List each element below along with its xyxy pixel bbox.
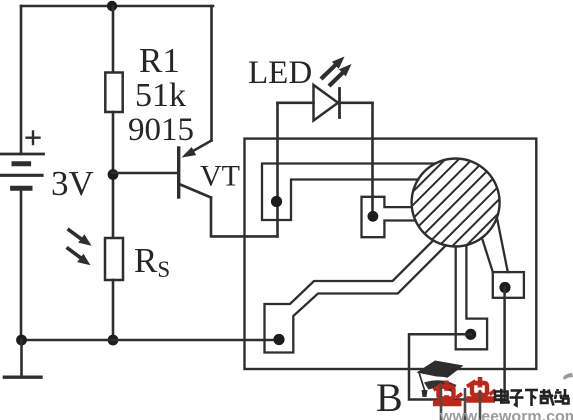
pad 3 dot: [273, 334, 284, 345]
photoresistor Rs: [105, 238, 123, 280]
paper smudge right edge: [563, 373, 573, 380]
piezo disc (hatched): [331, 145, 573, 260]
wire pad5 to pad4 routed below board: [409, 288, 505, 400]
pad 4 trace (bottom-middle): [456, 245, 487, 349]
svg-text:www.eeworm.com: www.eeworm.com: [439, 409, 573, 420]
char zai: [540, 389, 554, 406]
wire top rail to R1: [112, 6, 115, 73]
pad 1 trace (top-left): [262, 164, 435, 221]
wire left vertical to battery: [20, 6, 23, 152]
node battery bottom junction: [16, 335, 27, 346]
svg-text:VT: VT: [200, 160, 240, 193]
watermark dark vertical strokes: [441, 385, 480, 420]
wire Rs bottom to rail: [112, 280, 115, 340]
watermark chongchong character 2 (red bug): [467, 377, 496, 400]
svg-text:51k: 51k: [135, 77, 186, 114]
pad 4 dot: [465, 329, 476, 340]
LED cathode bar: [338, 89, 341, 118]
pad 5 dot: [499, 282, 510, 293]
wire emitter to top rail: [210, 6, 213, 141]
wire LED left horizontal: [278, 102, 314, 105]
wire battery bottom to bottom rail: [20, 191, 23, 341]
LED diode triangle: [314, 85, 339, 121]
wire top rail: [21, 5, 213, 8]
wire ground stub: [20, 340, 23, 376]
light arrow 2 at Rs: [68, 249, 91, 266]
node Rs bottom junction: [108, 335, 119, 346]
ground: [4, 376, 41, 379]
transistor VT 9015 PNP: [179, 141, 212, 198]
wire collector down and right: [211, 198, 278, 237]
wire R1 to base junction to Rs: [112, 112, 115, 238]
resistor R1: [105, 73, 122, 113]
wire bottom rail: [21, 339, 279, 342]
svg-text:9015: 9015: [128, 112, 194, 148]
watermark chongchong character 1 (red bug): [433, 381, 462, 404]
pad 5 trace (right): [482, 218, 524, 298]
watermark text dianzi xiazaizhan (drawn strokes): [495, 389, 569, 406]
pad 2 trace: [362, 197, 416, 237]
LED emission arrow 2: [331, 64, 352, 85]
PCB board outline B: [245, 139, 537, 369]
watermark graduation cap: [417, 361, 464, 398]
LED emission arrow 1: [323, 57, 345, 78]
svg-text:R1: R1: [139, 41, 180, 80]
pad 2 dot: [368, 211, 379, 222]
char zhan: [555, 389, 570, 404]
light arrow 1 at Rs: [69, 230, 92, 246]
battery GB 3V: [0, 154, 44, 188]
battery plus sign: [27, 132, 40, 145]
wire base wire: [113, 172, 177, 175]
wire LED right horizontal: [340, 102, 373, 105]
svg-text:3V: 3V: [51, 164, 94, 203]
char dian: [495, 389, 509, 403]
pad 3 trace (bottom-left): [265, 240, 446, 352]
node top junction: [107, 1, 117, 11]
svg-text:LED: LED: [248, 55, 312, 91]
char zi: [510, 391, 524, 406]
char xia: [525, 390, 538, 406]
wire LED anode vertical: [276, 103, 279, 237]
svg-text:B: B: [376, 375, 403, 420]
svg-text:RS: RS: [134, 241, 170, 282]
wire LED cathode vertical to pad: [371, 103, 374, 217]
node base junction: [108, 169, 119, 180]
pad 1 dot: [271, 196, 282, 207]
